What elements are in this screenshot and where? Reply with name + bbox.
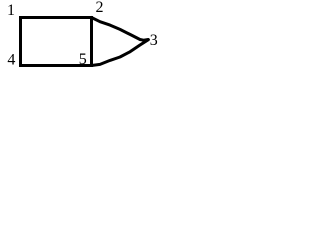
- edge 5-3 (bottom diagonal): [92, 40, 149, 66]
- svg-text:3: 3: [150, 32, 158, 49]
- svg-text:2: 2: [96, 0, 104, 16]
- svg-text:4: 4: [7, 52, 15, 69]
- rectangle edges 1-2, 2-5, 5-4, 4-1: [21, 18, 92, 66]
- svg-text:1: 1: [7, 2, 15, 19]
- edge 2-3 (top diagonal): [92, 18, 149, 41]
